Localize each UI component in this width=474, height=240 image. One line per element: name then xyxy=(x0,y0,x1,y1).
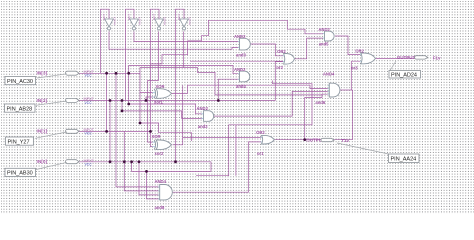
wire row IN[2] xyxy=(79,100,275,102)
and gate and8 AND4 xyxy=(155,179,173,210)
node dot row2 d xyxy=(217,99,220,102)
svg-text:or1: or1 xyxy=(257,151,264,156)
node dot row3 a xyxy=(105,130,108,133)
wire trunk B row1 to and6 input D xyxy=(140,68,328,95)
svg-text:IN[2]: IN[2] xyxy=(37,98,48,104)
wire riser pair second xyxy=(235,125,237,176)
svg-text:NOT: NOT xyxy=(127,14,131,21)
xor gate xor2 xyxy=(152,134,172,156)
svg-text:OUTPUT: OUTPUT xyxy=(397,55,416,60)
wire xor1 input B xyxy=(146,97,153,101)
svg-text:PIN_AC30: PIN_AC30 xyxy=(7,79,33,85)
wire NOT3 output to xor2 input A xyxy=(148,32,159,143)
svg-text:VCC: VCC xyxy=(85,74,93,78)
svg-text:and2: and2 xyxy=(198,124,208,129)
svg-text:and3: and3 xyxy=(236,53,246,58)
wire xor2 input B from row IN[1] xyxy=(151,131,153,146)
or gate or2 xyxy=(276,49,294,70)
svg-text:VCC: VCC xyxy=(85,101,93,105)
svg-text:AND2: AND2 xyxy=(197,106,209,111)
node dot row2 a xyxy=(109,99,112,102)
svg-text:IN[1]: IN[1] xyxy=(37,129,48,135)
svg-text:OR2: OR2 xyxy=(277,49,286,54)
wire or2 input B from row IN[2] xyxy=(275,62,283,101)
or gate or1 xyxy=(256,130,274,156)
wire trunk y61 to or2 input B xyxy=(190,60,283,62)
wire meander net from and4 area xyxy=(196,81,312,176)
svg-text:PIN_AB30: PIN_AB30 xyxy=(7,171,33,177)
wire row IN[3] xyxy=(79,72,140,74)
wire IN2 tap to and4 input B xyxy=(218,79,239,100)
and gate and3 xyxy=(234,34,250,58)
wire and8 output to or1 input B xyxy=(173,142,261,192)
node dot row4 d xyxy=(138,160,141,163)
node dot row2 c xyxy=(145,99,148,102)
and gate and4 xyxy=(234,67,250,89)
wire NOT2 output to and3 input A xyxy=(134,32,240,42)
svg-text:xor2: xor2 xyxy=(155,151,165,156)
svg-text:and6: and6 xyxy=(315,100,325,105)
svg-text:AND4: AND4 xyxy=(155,179,167,184)
node dot row4 c xyxy=(174,160,177,163)
node dot y104 xyxy=(127,103,130,106)
wire xor2 output to or1 input A xyxy=(173,137,261,144)
node dot output T xyxy=(303,138,306,141)
svg-text:F1v: F1v xyxy=(433,55,441,60)
svg-text:and8: and8 xyxy=(155,205,165,210)
output pin T xyxy=(306,137,419,162)
wire and6 output down to T row xyxy=(352,90,354,140)
wire and8 input 2 from row IN[1] xyxy=(124,131,160,191)
svg-text:AND2: AND2 xyxy=(318,27,330,32)
svg-text:AND2: AND2 xyxy=(234,34,246,39)
input pin IN[1] xyxy=(6,128,94,146)
wire node dot140 branch xyxy=(140,123,192,141)
wire staircase to and5 input A xyxy=(151,20,324,64)
node dot row1 c xyxy=(127,72,130,75)
svg-text:VCC: VCC xyxy=(85,132,93,136)
svg-text:NOT: NOT xyxy=(152,14,156,21)
svg-text:VCC: VCC xyxy=(85,163,93,167)
wire and8 input 4 from trunk171 xyxy=(147,171,161,199)
wire NOT4 output down xyxy=(183,32,185,68)
wire xor1 input A xyxy=(140,73,153,123)
svg-text:AND4: AND4 xyxy=(323,71,335,76)
node dot row4 c2 xyxy=(130,160,133,163)
wire bracket NOT1 input xyxy=(101,9,110,73)
svg-text:inst13: inst13 xyxy=(112,17,116,25)
wire row IN0 link to trunk171 xyxy=(210,162,212,172)
svg-text:AND2: AND2 xyxy=(234,67,246,72)
node dot row4 b xyxy=(123,160,126,163)
svg-text:XOR: XOR xyxy=(156,84,165,89)
svg-text:IN[3]: IN[3] xyxy=(37,71,48,77)
wire NOT1 output to and3 input B xyxy=(109,32,240,50)
inverter NOT2 xyxy=(127,14,141,30)
wire xor1 output to and6 input B xyxy=(172,85,328,93)
wire or1 output to pin T xyxy=(274,139,352,141)
wire and6 output to or3 input B xyxy=(340,61,360,90)
wire IN3 tap to row3 xyxy=(106,73,108,131)
svg-text:or3: or3 xyxy=(351,65,358,70)
wire and3 output to or2 input A xyxy=(250,44,283,56)
svg-text:OR2: OR2 xyxy=(256,130,265,135)
wire bracket NOT3 input xyxy=(151,9,160,131)
node dot y110 xyxy=(121,110,124,113)
wire IN2 tap to row IN[0] xyxy=(109,101,111,162)
or gate or3 xyxy=(351,48,375,70)
and gate and6 AND4 xyxy=(315,71,340,105)
wire trunk171 xyxy=(132,162,211,172)
input pin IN[2] xyxy=(5,97,94,112)
svg-text:PIN_AB28: PIN_AB28 xyxy=(7,106,33,112)
node dot trunk171 xyxy=(145,170,148,173)
wire and2 output to and6 input C xyxy=(213,91,328,116)
wire row IN[0] xyxy=(79,161,211,163)
svg-text:inst14: inst14 xyxy=(137,17,141,25)
node dot row4 a xyxy=(109,160,112,163)
svg-text:inst15: inst15 xyxy=(162,17,166,25)
wire IN3 tap to and8 input 1 xyxy=(116,73,161,187)
svg-text:T1v: T1v xyxy=(341,138,349,143)
node dot row1 b xyxy=(115,72,118,75)
svg-text:and5: and5 xyxy=(319,42,329,47)
wire trunk A row1 tap to and4 input A xyxy=(129,66,240,74)
wire bracket NOT4 input xyxy=(176,9,185,162)
wire or3 output to pin F xyxy=(376,57,418,59)
wire IN2 tap to and2 input B xyxy=(122,101,204,119)
node dot y123 xyxy=(139,122,142,125)
wire and8 input 3 from row IN[0] xyxy=(139,162,161,195)
svg-text:XOR: XOR xyxy=(152,134,161,139)
wire or2 output to and5 input B xyxy=(295,38,323,59)
svg-text:PIN_AA24: PIN_AA24 xyxy=(391,157,417,163)
svg-text:PIN_AD24: PIN_AD24 xyxy=(391,73,417,79)
wire bracket NOT2 input xyxy=(126,9,135,100)
wire and5 output to or3 input A xyxy=(335,36,360,55)
wire vertical riser x182.7 xyxy=(182,85,184,137)
svg-text:PIN_Y27: PIN_Y27 xyxy=(8,139,30,145)
and gate and5 xyxy=(318,27,334,47)
inverter NOT4 xyxy=(177,14,191,30)
svg-text:OR2: OR2 xyxy=(355,48,364,53)
svg-text:xor1: xor1 xyxy=(154,99,164,104)
svg-text:or2: or2 xyxy=(276,65,283,70)
svg-text:NOT: NOT xyxy=(177,14,181,21)
svg-text:NOT: NOT xyxy=(102,14,106,21)
inverter NOT1 xyxy=(102,14,116,30)
node dot row3 end xyxy=(149,130,152,133)
svg-text:IN[0]: IN[0] xyxy=(37,159,48,165)
xor gate xor1 xyxy=(153,84,172,104)
wire row IN[1] xyxy=(79,130,151,132)
svg-text:and4: and4 xyxy=(236,84,246,89)
node dot row2 b xyxy=(121,99,124,102)
node dot row1 a xyxy=(105,72,108,75)
wire T branch up to trunk B xyxy=(305,95,322,140)
inverter NOT3 xyxy=(152,14,166,30)
svg-text:inst16: inst16 xyxy=(187,17,191,25)
wire IN3 tap to and2 input A xyxy=(129,73,204,114)
input pin IN[0] xyxy=(5,159,94,177)
output pin F xyxy=(389,55,441,78)
input pin IN[3] xyxy=(5,70,94,85)
and gate and2 xyxy=(197,106,214,129)
